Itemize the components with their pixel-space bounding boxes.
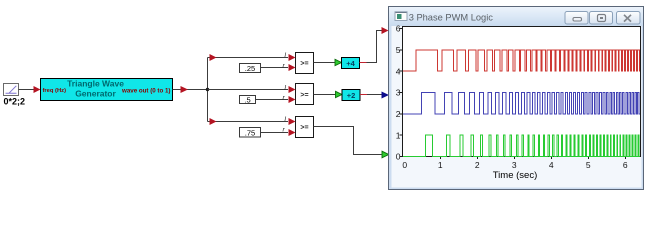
arrows into cmp1 [289, 54, 296, 71]
maximize button [590, 12, 613, 25]
svg-text:3: 3 [396, 88, 401, 98]
wire row2 [208, 89, 289, 91]
svg-text:1: 1 [438, 160, 443, 170]
arrows into cmp3 [289, 118, 296, 136]
svg-text:0*2;2: 0*2;2 [4, 97, 26, 107]
wire cmp1->+4 [314, 62, 336, 64]
green arrow into +2 [336, 91, 343, 97]
svg-text:0: 0 [402, 160, 407, 170]
wire generator->branch [173, 89, 208, 91]
arrow row1 [210, 54, 217, 61]
red stub +4 out [360, 62, 367, 64]
svg-text:>=: >= [300, 61, 308, 68]
svg-text:3: 3 [512, 160, 517, 170]
arrow into generator [34, 86, 41, 93]
ramp block R (0*2;2) [4, 84, 19, 96]
wire cmp2->+2 [314, 94, 336, 96]
arrows into cmp2 [289, 86, 296, 103]
x ticks [440, 157, 625, 160]
svg-text:5: 5 [586, 160, 591, 170]
blue arrow into plot (middle) [382, 92, 390, 99]
svg-text:.75: .75 [245, 129, 255, 138]
waveform green (PWM phase C) [403, 135, 640, 156]
svg-text:6: 6 [396, 24, 401, 34]
svg-text:2: 2 [475, 160, 480, 170]
svg-text:4: 4 [549, 160, 554, 170]
plot window frame [389, 7, 644, 190]
wire .5->cmp [256, 99, 289, 101]
svg-text:1: 1 [396, 130, 401, 140]
svg-text:>=: >= [300, 92, 308, 99]
close button [617, 12, 641, 25]
svg-text:6: 6 [623, 160, 628, 170]
svg-text:Time (sec): Time (sec) [493, 170, 538, 181]
svg-text:>=: >= [300, 125, 308, 132]
block +2 [342, 90, 360, 101]
svg-text:5: 5 [396, 45, 401, 55]
green arrow into plot (bottom) [382, 151, 389, 158]
wire cmp3 -> window [314, 127, 382, 155]
wire .25->cmp [261, 67, 289, 69]
constant .25 [240, 64, 261, 73]
wire +2 -> window [367, 94, 382, 96]
waveform red (PWM phase A) [403, 50, 640, 71]
y ticks [400, 29, 403, 157]
svg-text:.25: .25 [245, 64, 255, 73]
comparator U2 [296, 84, 314, 105]
title bar [389, 7, 643, 26]
red arrow into plot (top) [382, 27, 389, 34]
wire +4 -> window [367, 31, 382, 63]
svg-text:+4: +4 [346, 59, 355, 68]
arrow row3 [210, 118, 217, 125]
junction node [206, 88, 209, 91]
wire row3 [208, 121, 289, 123]
comparator U3 [296, 117, 314, 138]
wire .75->cmp [261, 132, 289, 134]
arrow mid wire [181, 86, 189, 93]
branch vertical [207, 58, 209, 122]
constant .5 [240, 96, 256, 104]
svg-text:Triangle Wave: Triangle Wave [67, 79, 124, 89]
window icon [395, 12, 407, 21]
waveform blue (PWM phase B) [403, 93, 640, 114]
svg-text:Generator: Generator [75, 89, 116, 99]
svg-text:4: 4 [396, 66, 401, 76]
svg-text:.5: .5 [244, 96, 250, 105]
green arrow into +4 [335, 59, 342, 65]
svg-text:wave out (0 to 1): wave out (0 to 1) [121, 88, 170, 95]
constant .75 [240, 128, 261, 138]
triangle wave generator block [41, 79, 173, 101]
svg-text:freq (Hz): freq (Hz) [43, 88, 67, 94]
plot box [403, 27, 641, 157]
ramp icon [6, 86, 17, 93]
block +4 [342, 58, 360, 69]
svg-text:3 Phase PWM Logic: 3 Phase PWM Logic [409, 12, 494, 22]
red stub +2 out [360, 94, 367, 96]
comparator U1 [296, 53, 314, 74]
minimize button [565, 12, 588, 25]
wire row1 [208, 57, 289, 59]
svg-text:2: 2 [396, 109, 401, 119]
wire ramp->generator [19, 89, 34, 91]
svg-text:+2: +2 [347, 91, 356, 100]
client area [392, 26, 642, 188]
svg-text:0: 0 [396, 152, 401, 162]
